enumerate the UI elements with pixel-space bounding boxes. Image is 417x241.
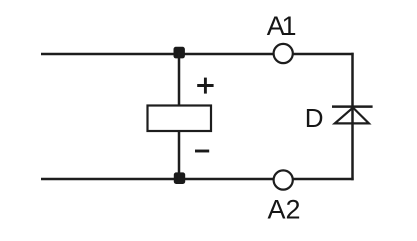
label D (305, 103, 324, 133)
diode D (anode triangle) (335, 108, 369, 124)
wire top rail right (A1 to corner) (293, 53, 354, 56)
svg-text:1: 1 (282, 11, 297, 41)
coil K1 (relay coil rectangle) (148, 106, 212, 132)
polarity plus mark (197, 78, 213, 94)
label A1 (267, 11, 297, 41)
terminal A2 (274, 170, 293, 189)
wire bottom rail right (corner to A2) (293, 178, 354, 181)
wire top rail left (41, 53, 274, 56)
wire coil branch bottom (178, 131, 181, 180)
node junction top (174, 47, 185, 59)
wire coil branch top (178, 53, 181, 107)
polarity minus mark (195, 150, 209, 153)
svg-text:D: D (305, 103, 324, 133)
diode D (cathode bar) (332, 105, 373, 108)
terminal A1 (274, 44, 293, 63)
wire bottom rail left (41, 178, 274, 181)
node junction bottom (174, 172, 185, 184)
wire right vertical (through diode) (351, 53, 354, 180)
label A2 (268, 194, 301, 224)
svg-text:A2: A2 (268, 194, 301, 224)
